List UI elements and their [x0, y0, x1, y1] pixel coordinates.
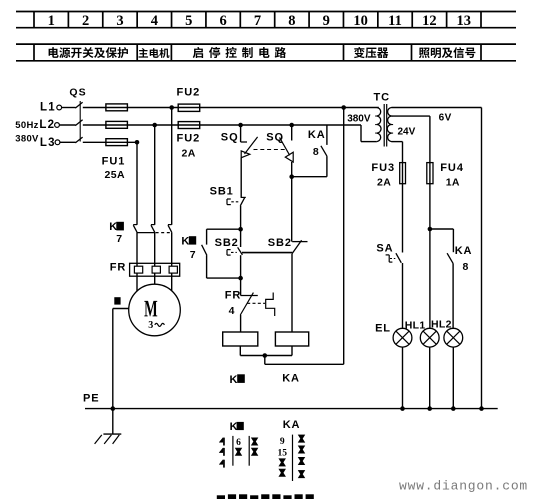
svg-text:7: 7 [254, 13, 261, 29]
svg-text:K: K [230, 374, 238, 386]
svg-text:K: K [230, 421, 238, 433]
svg-text:12: 12 [422, 13, 437, 29]
svg-text:HL2: HL2 [431, 319, 452, 331]
svg-text:www.diangon.com: www.diangon.com [399, 479, 528, 494]
svg-text:KA: KA [282, 372, 300, 384]
svg-text:TC: TC [373, 91, 390, 103]
svg-text:8: 8 [313, 146, 319, 158]
svg-text:HL1: HL1 [405, 320, 426, 332]
svg-text:SB2: SB2 [215, 237, 239, 249]
svg-text:QS: QS [69, 87, 86, 99]
svg-text:11: 11 [388, 13, 402, 29]
svg-text:K: K [109, 221, 117, 233]
svg-text:SQ: SQ [221, 132, 239, 144]
svg-text:380V: 380V [347, 114, 371, 125]
svg-text:L1: L1 [40, 102, 56, 114]
svg-text:4: 4 [229, 305, 235, 317]
svg-text:FR: FR [225, 290, 241, 302]
svg-text:4: 4 [151, 13, 158, 29]
svg-text:8: 8 [288, 13, 295, 29]
svg-text:EL: EL [375, 323, 391, 335]
svg-text:3: 3 [148, 320, 153, 331]
svg-text:6V: 6V [439, 112, 452, 123]
svg-text:KA: KA [455, 245, 473, 257]
svg-text:1: 1 [48, 13, 55, 29]
svg-text:2: 2 [82, 13, 89, 29]
svg-text:1A: 1A [446, 177, 460, 189]
svg-text:6: 6 [219, 13, 226, 29]
svg-text:5: 5 [185, 13, 192, 29]
svg-text:10: 10 [353, 13, 368, 29]
svg-text:K: K [181, 235, 189, 247]
svg-text:FU2: FU2 [177, 87, 201, 99]
svg-text:24V: 24V [398, 127, 416, 138]
svg-text:2A: 2A [377, 177, 391, 189]
svg-text:6: 6 [236, 438, 241, 448]
svg-text:7: 7 [190, 249, 196, 261]
svg-text:SB1: SB1 [210, 186, 234, 198]
svg-text:FU4: FU4 [440, 162, 464, 174]
svg-text:13: 13 [457, 13, 472, 29]
svg-text:FU2: FU2 [177, 132, 201, 144]
svg-text:KA: KA [283, 419, 301, 431]
svg-text:15: 15 [277, 448, 287, 458]
svg-text:9: 9 [280, 437, 285, 447]
svg-text:L3: L3 [40, 137, 56, 149]
svg-text:2A: 2A [182, 148, 196, 160]
svg-text:PE: PE [83, 393, 99, 405]
svg-text:380V: 380V [15, 134, 39, 145]
svg-text:KA: KA [308, 129, 326, 141]
svg-text:SA: SA [376, 243, 393, 255]
svg-text:FU3: FU3 [371, 162, 395, 174]
svg-text:FR: FR [110, 262, 126, 274]
svg-text:7: 7 [116, 233, 122, 245]
svg-text:L2: L2 [39, 119, 55, 131]
svg-text:9: 9 [323, 13, 330, 29]
svg-text:8: 8 [463, 261, 469, 273]
svg-text:25A: 25A [105, 169, 125, 181]
svg-text:3: 3 [116, 13, 123, 29]
svg-text:50Hz: 50Hz [15, 120, 38, 131]
svg-text:FU1: FU1 [102, 156, 126, 168]
svg-text:SQ: SQ [266, 132, 284, 144]
svg-text:SB2: SB2 [268, 237, 292, 249]
